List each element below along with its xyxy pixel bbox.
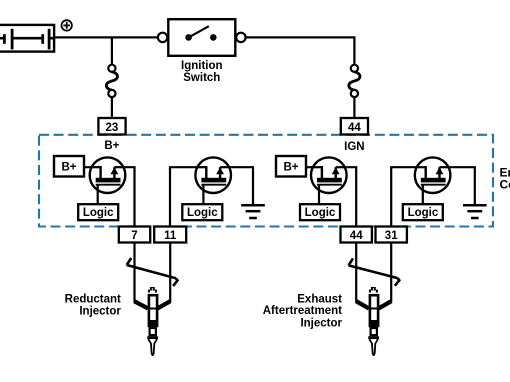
ECM label text bbox=[500, 165, 510, 191]
wire battery to ignition switch bbox=[54, 36, 158, 38]
wire Q3 drain to pin 44 bbox=[347, 167, 357, 226]
wire ignition switch to IGN drop bbox=[246, 37, 355, 65]
wire Q2 source to ground bbox=[231, 167, 253, 205]
svg-text:23: 23 bbox=[106, 122, 119, 134]
svg-text:11: 11 bbox=[164, 230, 177, 242]
svg-text:Exhaust: Exhaust bbox=[297, 293, 342, 305]
gate wire Q3 to logic bbox=[318, 185, 320, 205]
connector pin 44 top bbox=[341, 118, 368, 135]
injector 2 coil connection wings bbox=[356, 301, 391, 308]
label Ignition Switch bbox=[181, 60, 223, 84]
logic box 2 bbox=[182, 204, 222, 220]
transistor Q2 low-side driver bbox=[195, 157, 231, 193]
wire junction down to circuit breaker CB1 bbox=[111, 37, 113, 65]
B+ supply box right bbox=[276, 156, 306, 177]
connector pin 44 bottom bbox=[341, 227, 372, 243]
svg-text:Logic: Logic bbox=[83, 207, 114, 219]
net label B+ bbox=[104, 140, 119, 152]
label Reductant Injector bbox=[65, 293, 122, 317]
wire pin 31 up to Q4 bbox=[391, 167, 426, 226]
ground G2 bbox=[463, 205, 487, 218]
B+ supply box left bbox=[54, 156, 84, 177]
transistor Q4 low-side driver bbox=[415, 157, 451, 193]
logic box 3 bbox=[300, 204, 340, 220]
circuit breaker CB2 bbox=[349, 65, 360, 118]
wire pin 7 down to injector 1 bbox=[133, 243, 135, 303]
exhaust aftertreatment injector body bbox=[369, 287, 380, 355]
transistor Q3 high-side driver bbox=[311, 157, 347, 193]
wire pin 11 down to injector 1 bbox=[169, 243, 171, 303]
svg-text:44: 44 bbox=[350, 230, 363, 242]
connector pin 31 bbox=[376, 227, 407, 243]
svg-text:B+: B+ bbox=[104, 140, 119, 152]
ground G1 bbox=[241, 205, 265, 218]
logic box 1 bbox=[78, 204, 118, 220]
injector 1 coil connection wings bbox=[135, 301, 171, 308]
gate wire Q2 to logic bbox=[202, 185, 204, 205]
wire pin 11 up to Q2 bbox=[170, 167, 206, 226]
svg-text:B+: B+ bbox=[283, 161, 298, 173]
connector pin 7 bbox=[119, 227, 150, 243]
battery positive terminal symbol bbox=[61, 20, 71, 30]
wire B+ box to Q3 bbox=[306, 166, 322, 168]
ignition switch S1 terminal left bbox=[158, 33, 167, 42]
svg-text:Reductant: Reductant bbox=[65, 293, 121, 305]
wire pin 44 down to injector 2 bbox=[355, 243, 357, 303]
ignition switch S1 terminal right bbox=[236, 33, 245, 42]
svg-text:B+: B+ bbox=[61, 161, 76, 173]
svg-text:Aftertreatment: Aftertreatment bbox=[263, 305, 342, 317]
svg-text:31: 31 bbox=[385, 230, 398, 242]
net label IGN bbox=[344, 141, 364, 153]
ignition switch S1 bbox=[168, 19, 235, 56]
wire B+ box to Q1 bbox=[84, 166, 101, 168]
wire pin 31 down to injector 2 bbox=[390, 243, 392, 303]
wire Q4 source to ground bbox=[451, 167, 475, 205]
svg-text:Logic: Logic bbox=[305, 207, 336, 219]
gate wire Q4 to logic bbox=[422, 185, 424, 205]
svg-text:Switch: Switch bbox=[183, 72, 220, 84]
twisted pair slash mark left bbox=[127, 258, 178, 286]
svg-text:Logic: Logic bbox=[187, 207, 218, 219]
svg-text:Injector: Injector bbox=[79, 306, 121, 318]
twisted pair slash mark right bbox=[349, 258, 400, 285]
logic box 4 bbox=[403, 204, 443, 220]
circuit breaker CB1 bbox=[106, 65, 117, 118]
svg-text:IGN: IGN bbox=[344, 141, 364, 153]
svg-text:Ignition: Ignition bbox=[181, 60, 223, 72]
wire Q1 drain to pin 7 bbox=[125, 167, 134, 226]
svg-text:Control Module: Control Module bbox=[500, 177, 510, 191]
reductant injector body bbox=[148, 287, 159, 355]
svg-text:Injector: Injector bbox=[300, 317, 342, 329]
svg-text:7: 7 bbox=[131, 230, 137, 242]
connector pin 11 bbox=[154, 227, 186, 243]
connector pin 23 bbox=[98, 118, 125, 135]
ECM dashed boundary box bbox=[39, 135, 493, 227]
label Exhaust Aftertreatment Injector bbox=[263, 293, 343, 329]
gate wire Q1 to logic bbox=[97, 185, 99, 205]
transistor Q1 high-side driver bbox=[90, 157, 126, 193]
battery B1 bbox=[0, 25, 55, 52]
svg-text:44: 44 bbox=[348, 122, 361, 134]
svg-text:Logic: Logic bbox=[408, 207, 439, 219]
